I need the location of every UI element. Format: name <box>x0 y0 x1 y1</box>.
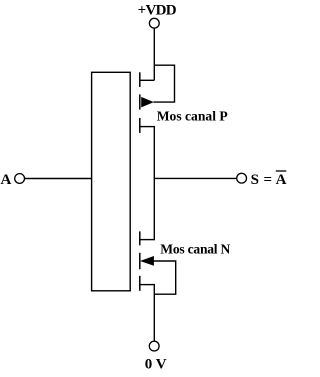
NMOS source stub <box>140 284 155 286</box>
svg-text:A: A <box>1 172 12 188</box>
NMOS bulk arrow <box>140 256 154 266</box>
transistor Q1 PMOS channel bar middle (bulk) <box>139 94 141 109</box>
svg-text:A: A <box>276 172 287 188</box>
wire drain-drain <box>153 127 155 240</box>
input terminal <box>15 174 25 184</box>
PMOS drain stub <box>140 126 155 128</box>
overline of A <box>276 170 287 172</box>
NMOS drain stub <box>140 239 155 241</box>
transistor Q2 NMOS channel bar middle (bulk) <box>139 253 141 269</box>
wire VDD to PMOS source <box>153 28 155 80</box>
svg-text:S: S <box>251 172 259 188</box>
output wire <box>154 177 236 179</box>
output terminal <box>237 173 247 183</box>
wire NMOS bulk loop <box>154 261 176 294</box>
wire PMOS bulk loop <box>154 65 175 102</box>
wire NMOS source to ground terminal <box>153 285 155 341</box>
PMOS bulk arrow <box>141 97 154 108</box>
transistor Q1 PMOS channel bar top (source) <box>139 72 141 87</box>
PMOS source stub <box>140 79 155 81</box>
svg-text:+VDD: +VDD <box>138 3 177 19</box>
gate rectangle <box>92 72 131 290</box>
input wire <box>25 178 92 180</box>
transistor Q2 NMOS channel bar bottom (source) <box>139 276 141 291</box>
svg-text:Mos canal P: Mos canal P <box>157 108 228 123</box>
ground terminal (0 V) <box>149 341 159 351</box>
svg-text:0 V: 0 V <box>145 357 167 373</box>
VDD terminal <box>149 18 159 28</box>
svg-text:Mos canal N: Mos canal N <box>160 241 230 256</box>
transistor Q1 PMOS channel bar bottom (drain) <box>139 118 141 133</box>
svg-text:=: = <box>264 172 273 188</box>
transistor Q2 NMOS channel bar top (drain) <box>139 231 141 245</box>
